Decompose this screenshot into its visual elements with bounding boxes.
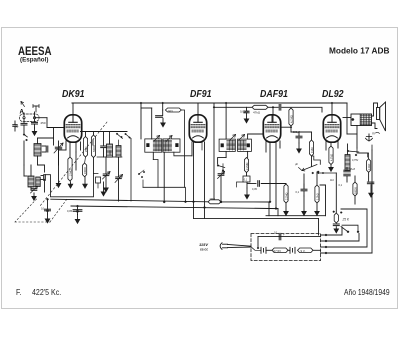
svg-text:1kΩ: 1kΩ (168, 109, 174, 113)
svg-text:4,7MΩ: 4,7MΩ (289, 115, 293, 123)
svg-text:8+8: 8+8 (351, 167, 356, 171)
svg-text:25 K: 25 K (342, 218, 350, 222)
svg-text:1MΩ: 1MΩ (310, 147, 314, 153)
svg-text:+: + (283, 233, 285, 237)
svg-text:0,1: 0,1 (274, 231, 278, 235)
svg-text:2000: 2000 (109, 149, 112, 155)
svg-text:47kΩ: 47kΩ (253, 111, 261, 115)
svg-text:4,7MΩ: 4,7MΩ (330, 154, 333, 161)
svg-text:μF: μF (295, 162, 298, 166)
svg-text:2,2MΩ: 2,2MΩ (285, 192, 288, 200)
svg-text:0,75V: 0,75V (352, 159, 359, 162)
svg-text:m: m (372, 132, 375, 136)
svg-text:0,05: 0,05 (252, 188, 257, 191)
svg-text:50000: 50000 (354, 187, 357, 194)
svg-text:250: 250 (41, 121, 46, 125)
svg-text:ca cc: ca cc (200, 248, 208, 252)
svg-text:0,05: 0,05 (67, 209, 73, 213)
svg-text:2,2kΩ: 2,2kΩ (368, 163, 371, 170)
svg-text:1,2kΩ: 1,2kΩ (316, 193, 319, 200)
svg-text:2MΩ: 2MΩ (210, 197, 216, 201)
svg-text:0,1: 0,1 (41, 207, 45, 211)
svg-text:20000: 20000 (84, 167, 87, 174)
svg-text:115V: 115V (199, 242, 208, 247)
svg-text:0,1: 0,1 (339, 183, 343, 187)
svg-text:0,1: 0,1 (296, 190, 300, 194)
svg-text:50000: 50000 (93, 145, 96, 152)
svg-text:500pF: 500pF (293, 131, 301, 134)
svg-text:0,1: 0,1 (244, 179, 248, 182)
svg-text:2,2MΩ: 2,2MΩ (246, 162, 249, 170)
svg-text:110: 110 (330, 179, 334, 182)
svg-text:67,5V: 67,5V (274, 249, 282, 253)
svg-text:9 V.: 9 V. (301, 249, 306, 253)
